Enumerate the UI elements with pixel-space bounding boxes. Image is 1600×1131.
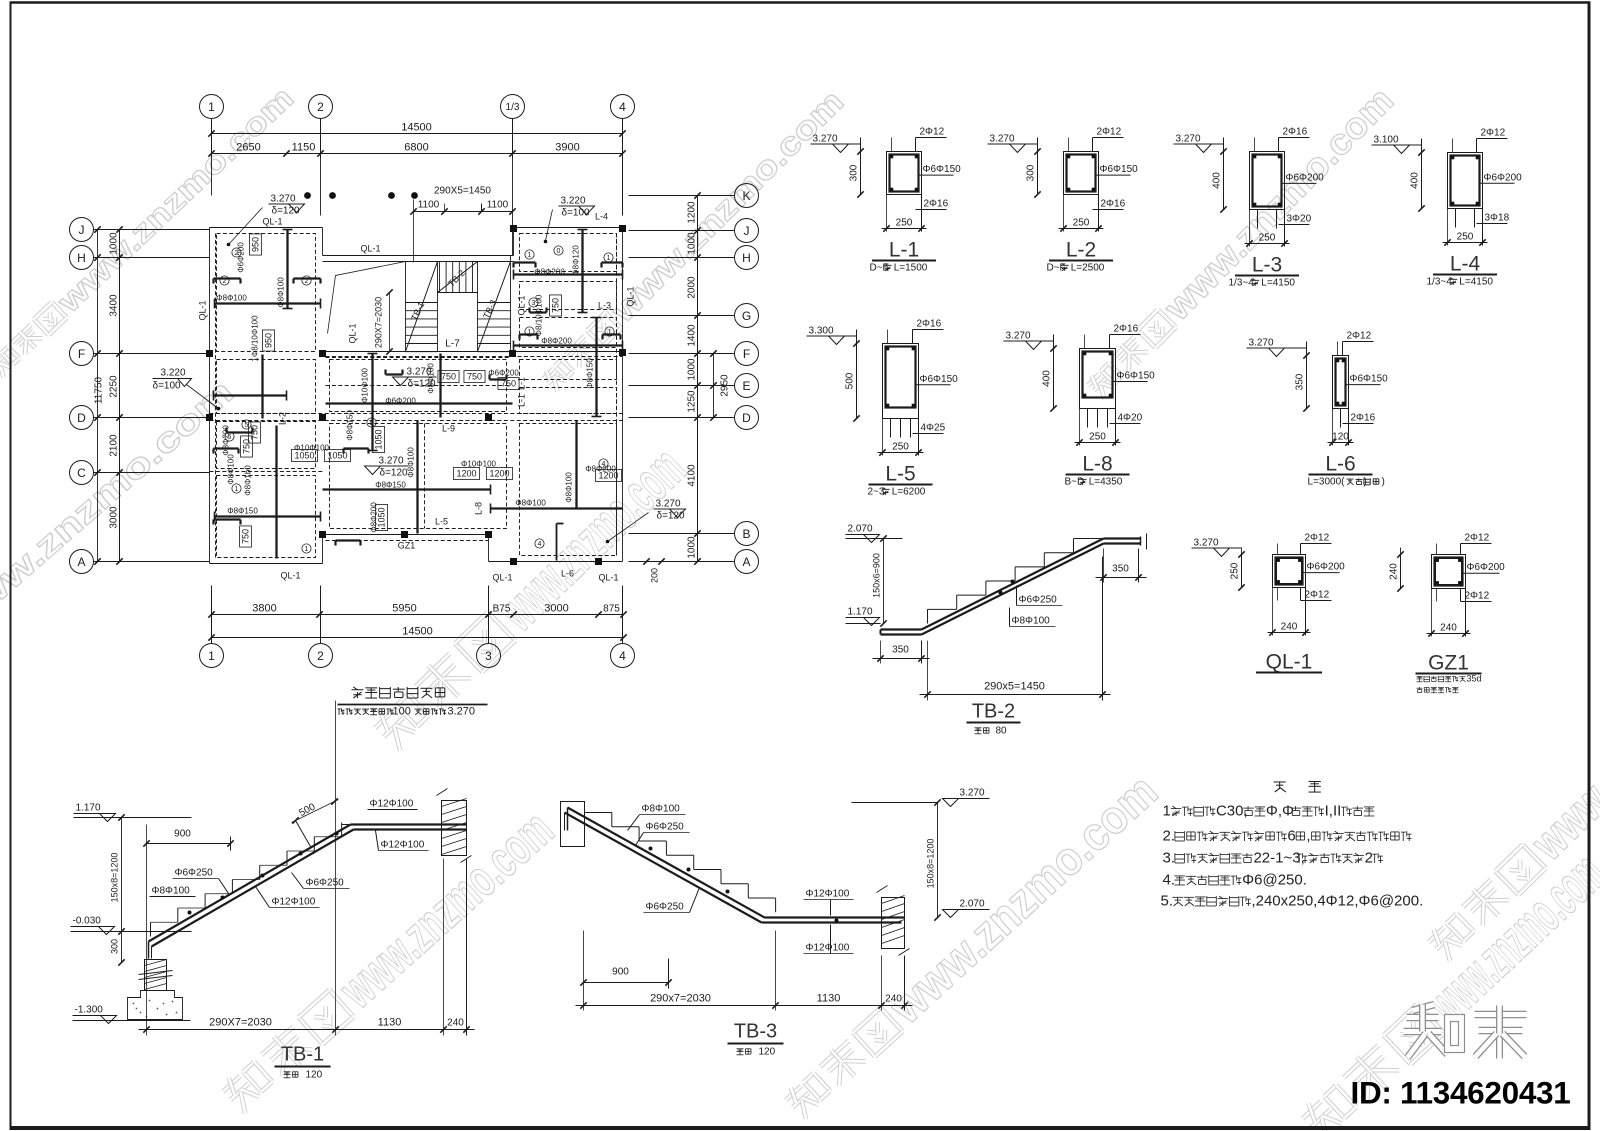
svg-text:Φ6Φ250: Φ6Φ250: [175, 868, 214, 879]
svg-text:1: 1: [208, 649, 215, 663]
svg-text:250: 250: [1089, 432, 1106, 443]
svg-text:GZ1: GZ1: [1428, 652, 1469, 675]
svg-text:L=4150: L=4150: [1459, 277, 1493, 288]
svg-text:300: 300: [110, 939, 120, 954]
svg-text:250: 250: [892, 442, 909, 453]
svg-text:1050: 1050: [374, 429, 384, 449]
svg-text:250: 250: [1073, 218, 1090, 229]
svg-text:2950: 2950: [720, 374, 731, 397]
svg-text:D: D: [742, 411, 751, 425]
svg-text:2Φ12: 2Φ12: [1097, 127, 1122, 138]
svg-text:Φ8Φ100: Φ8Φ100: [1012, 616, 1051, 627]
svg-text:4: 4: [538, 541, 542, 548]
svg-text:I,II: I,II: [1325, 803, 1342, 820]
svg-text:δ=100: δ=100: [153, 381, 182, 392]
svg-text:2Φ16: 2Φ16: [1351, 413, 1376, 424]
svg-text:5: 5: [370, 420, 374, 427]
svg-text:D: D: [77, 411, 86, 425]
svg-text:4Φ20: 4Φ20: [1118, 413, 1143, 424]
svg-text:1/3~4: 1/3~4: [1427, 277, 1453, 288]
svg-text:1150: 1150: [292, 142, 316, 154]
svg-text:3.270: 3.270: [656, 499, 681, 510]
svg-text:120: 120: [1332, 432, 1349, 443]
svg-text:290x5=1450: 290x5=1450: [984, 681, 1045, 693]
svg-text:L-3: L-3: [598, 301, 611, 311]
svg-text:1000: 1000: [109, 232, 120, 255]
svg-text:80: 80: [996, 726, 1008, 737]
svg-text:4100: 4100: [687, 464, 698, 487]
svg-text:L=2500: L=2500: [1071, 263, 1105, 274]
svg-text:3: 3: [485, 649, 492, 663]
svg-text:3.300: 3.300: [809, 326, 834, 337]
svg-text:3.220: 3.220: [161, 368, 186, 379]
svg-text:250: 250: [1259, 233, 1276, 244]
svg-text:1.: 1.: [1163, 803, 1176, 820]
svg-text:Φ8Φ100: Φ8Φ100: [515, 499, 546, 508]
svg-text:1: 1: [608, 329, 612, 336]
svg-text:2100: 2100: [109, 434, 120, 457]
svg-text:Φ8Φ150: Φ8Φ150: [227, 507, 258, 516]
svg-text:350: 350: [892, 645, 909, 656]
svg-text:3.: 3.: [1163, 850, 1176, 867]
svg-text:Φ8Φ100: Φ8Φ100: [277, 277, 286, 308]
svg-text:2Φ12: 2Φ12: [1465, 591, 1490, 602]
svg-text:3.270: 3.270: [990, 134, 1015, 145]
svg-text:11750: 11750: [94, 377, 105, 405]
svg-text:2Φ16: 2Φ16: [1101, 199, 1126, 210]
svg-text:Φ8Φ150: Φ8Φ150: [586, 358, 595, 389]
svg-text:290X7=2030: 290X7=2030: [374, 297, 384, 348]
svg-text:3000: 3000: [109, 506, 120, 529]
svg-text:0: 0: [557, 248, 561, 255]
svg-text:QL-1: QL-1: [262, 217, 282, 227]
svg-text:2Φ16: 2Φ16: [924, 199, 949, 210]
svg-text:δ=120: δ=120: [657, 511, 686, 522]
svg-text:H: H: [77, 251, 86, 265]
svg-text:250: 250: [1457, 232, 1474, 243]
svg-text:1Φ8/10Φ100: 1Φ8/10Φ100: [251, 315, 260, 362]
svg-text:22-1~3,: 22-1~3,: [1253, 850, 1304, 867]
svg-text:E: E: [742, 379, 750, 393]
svg-text:Φ8Φ100: Φ8Φ100: [642, 804, 681, 815]
svg-text:1200: 1200: [489, 469, 509, 479]
svg-text:300: 300: [849, 164, 860, 181]
svg-text:100: 100: [393, 706, 411, 718]
svg-text:350: 350: [1295, 373, 1306, 390]
svg-text:1130: 1130: [817, 993, 841, 1005]
svg-text:Φ8Φ200: Φ8Φ200: [541, 337, 572, 346]
svg-text:1130: 1130: [378, 1017, 402, 1029]
svg-text:3.270: 3.270: [1249, 338, 1274, 349]
svg-text:240: 240: [885, 994, 902, 1005]
svg-text:A: A: [77, 555, 85, 569]
svg-text:Φ8Φ100: Φ8Φ100: [407, 447, 416, 478]
svg-text:Φ6Φ200: Φ6Φ200: [1467, 562, 1506, 573]
svg-text:3.270: 3.270: [407, 367, 432, 378]
svg-text:950: 950: [251, 237, 261, 252]
svg-text:3.270: 3.270: [813, 134, 838, 145]
svg-text:Φ6Φ250: Φ6Φ250: [646, 822, 685, 833]
svg-text:150x8=1200: 150x8=1200: [926, 839, 936, 889]
svg-text:1400: 1400: [687, 324, 698, 347]
svg-text:240: 240: [1389, 563, 1400, 580]
svg-text:750: 750: [467, 372, 482, 382]
svg-text:1200: 1200: [687, 201, 698, 224]
svg-text:QL-1: QL-1: [492, 573, 512, 583]
svg-text:,: ,: [1306, 828, 1310, 845]
svg-text:TB-3: TB-3: [734, 1021, 777, 1043]
svg-text:400: 400: [1042, 370, 1053, 387]
svg-text:Φ8Φ100: Φ8Φ100: [227, 454, 236, 485]
svg-text:4.: 4.: [1163, 872, 1176, 889]
svg-text:2Φ12: 2Φ12: [920, 127, 945, 138]
svg-text:120: 120: [306, 1070, 323, 1081]
svg-text:400: 400: [1410, 172, 1421, 189]
svg-text:240: 240: [447, 1018, 464, 1029]
svg-text:1/3: 1/3: [506, 102, 520, 113]
svg-text:Φ8Φ100: Φ8Φ100: [216, 294, 247, 303]
svg-text:1: 1: [607, 255, 611, 262]
svg-text:Φ12Φ100: Φ12Φ100: [272, 897, 316, 908]
svg-text:2000: 2000: [687, 276, 698, 299]
svg-text:F: F: [78, 347, 85, 361]
svg-text:Φ8Φ200: Φ8Φ200: [534, 268, 565, 277]
svg-text:Φ6Φ200: Φ6Φ200: [1286, 172, 1325, 183]
svg-text:1: 1: [528, 329, 532, 336]
svg-text:6800: 6800: [404, 142, 428, 154]
svg-text:3.270: 3.270: [1194, 538, 1219, 549]
svg-text:Φ6Φ250: Φ6Φ250: [646, 902, 685, 913]
svg-text:2250: 2250: [109, 375, 120, 398]
svg-text:Φ6Φ200: Φ6Φ200: [488, 369, 519, 378]
svg-text:150x6=900: 150x6=900: [872, 553, 882, 598]
svg-text:1050: 1050: [327, 451, 347, 461]
svg-text:G: G: [742, 309, 751, 323]
svg-text:750: 750: [441, 372, 456, 382]
svg-text:2Φ16: 2Φ16: [1283, 127, 1308, 138]
svg-text:3.270: 3.270: [448, 706, 476, 718]
svg-text:200: 200: [650, 568, 660, 583]
svg-text:L-5: L-5: [885, 463, 915, 486]
svg-text:δ=120: δ=120: [380, 468, 409, 479]
svg-text:L-8: L-8: [474, 502, 484, 515]
svg-text:3Φ18: 3Φ18: [1485, 213, 1510, 224]
svg-text:Φ8Φ150: Φ8Φ150: [375, 481, 406, 490]
svg-text:2Φ16: 2Φ16: [917, 319, 942, 330]
svg-text:240: 240: [1281, 622, 1298, 633]
svg-text:QL-1: QL-1: [626, 286, 636, 306]
svg-text:L=1500: L=1500: [894, 263, 928, 274]
svg-text:H: H: [742, 251, 751, 265]
svg-text:Φ6Φ150: Φ6Φ150: [1100, 164, 1139, 175]
svg-text:ID: 1134620431: ID: 1134620431: [1351, 1075, 1571, 1111]
svg-text:Φ12Φ100: Φ12Φ100: [806, 943, 850, 954]
svg-text:750: 750: [242, 439, 252, 454]
svg-text:1/3~4: 1/3~4: [1229, 278, 1255, 289]
svg-text:L-2: L-2: [278, 412, 288, 425]
svg-text:L-9: L-9: [442, 424, 455, 434]
svg-text:L-1: L-1: [517, 377, 527, 390]
svg-text:Φ8Φ100: Φ8Φ100: [565, 472, 574, 503]
svg-text:3: 3: [532, 300, 536, 307]
svg-text:Φ6Φ150: Φ6Φ150: [1117, 371, 1156, 382]
svg-text:1100: 1100: [487, 200, 509, 211]
svg-text:2: 2: [317, 100, 324, 114]
svg-text:5: 5: [245, 422, 249, 429]
svg-text:QL-1: QL-1: [598, 573, 618, 583]
svg-text:950: 950: [264, 333, 274, 348]
svg-text:1: 1: [528, 252, 532, 259]
svg-text:750: 750: [501, 379, 516, 389]
svg-text:2650: 2650: [236, 142, 260, 154]
svg-text:2Φ12: 2Φ12: [1347, 331, 1372, 342]
svg-text:14500: 14500: [401, 122, 432, 134]
svg-text:1250: 1250: [687, 390, 698, 413]
svg-text:3.220: 3.220: [561, 196, 586, 207]
svg-text:QL-1: QL-1: [1266, 651, 1313, 674]
svg-text:2~3: 2~3: [868, 487, 885, 498]
svg-text:500: 500: [845, 372, 856, 389]
svg-text:L-4: L-4: [595, 212, 608, 222]
svg-text:1000: 1000: [687, 536, 698, 559]
svg-text:3.270: 3.270: [379, 456, 404, 467]
svg-text:2: 2: [1365, 850, 1373, 867]
svg-text:2: 2: [317, 649, 324, 663]
svg-text:3900: 3900: [555, 142, 579, 154]
svg-text:4: 4: [619, 100, 626, 114]
svg-text:Φ8Φ120: Φ8Φ120: [572, 245, 581, 276]
svg-text:GZ1: GZ1: [398, 541, 416, 551]
svg-text:δ=120: δ=120: [408, 379, 437, 390]
svg-text:-0.030: -0.030: [73, 916, 102, 927]
svg-text:2: 2: [305, 278, 309, 285]
svg-text:750: 750: [551, 298, 561, 313]
svg-text:Φ8Φ1b0: Φ8Φ1b0: [244, 465, 253, 496]
svg-text:290X5=1450: 290X5=1450: [434, 186, 491, 197]
svg-text:2.070: 2.070: [848, 524, 873, 535]
svg-text:3.270: 3.270: [1176, 134, 1201, 145]
svg-text:900: 900: [612, 967, 629, 978]
svg-text:L=4350: L=4350: [1089, 477, 1123, 488]
svg-text:Φ6Φ250: Φ6Φ250: [306, 878, 345, 889]
svg-text:): ): [1382, 477, 1385, 488]
svg-text:L-2: L-2: [1066, 239, 1096, 262]
svg-text:L-8: L-8: [1082, 453, 1112, 476]
svg-text:2Φ12: 2Φ12: [1305, 533, 1330, 544]
svg-text:Φ6Φ150: Φ6Φ150: [923, 164, 962, 175]
svg-text:900: 900: [174, 829, 191, 840]
svg-text:L-1: L-1: [517, 394, 527, 407]
svg-text:1: 1: [235, 486, 239, 493]
svg-text:B75: B75: [493, 604, 511, 615]
svg-text:A: A: [742, 555, 750, 569]
svg-text:14500: 14500: [402, 626, 433, 638]
svg-text:L-1: L-1: [889, 239, 919, 262]
svg-text:3.270: 3.270: [1006, 331, 1031, 342]
svg-text:2Φ12: 2Φ12: [1481, 128, 1506, 139]
svg-text:1000: 1000: [687, 232, 698, 255]
svg-text:4: 4: [619, 649, 626, 663]
svg-text:Φ10Φ100: Φ10Φ100: [361, 367, 370, 403]
svg-text:1050: 1050: [377, 507, 387, 527]
svg-text:1100: 1100: [418, 200, 440, 211]
svg-text:F: F: [743, 347, 750, 361]
svg-text:1.170: 1.170: [76, 803, 101, 814]
svg-text:δ=120: δ=120: [272, 206, 301, 217]
svg-text:2Φ16: 2Φ16: [1114, 324, 1139, 335]
svg-text:Φ6Φ150: Φ6Φ150: [920, 374, 959, 385]
svg-text:3400: 3400: [109, 294, 120, 317]
svg-text:3Φ20: 3Φ20: [1287, 214, 1312, 225]
svg-text:750: 750: [241, 529, 251, 544]
svg-text:Φ6Φ200: Φ6Φ200: [1484, 172, 1523, 183]
svg-text:Φ8Φ100: Φ8Φ100: [152, 886, 191, 897]
svg-text:1: 1: [208, 100, 215, 114]
svg-text:Φ,Φ: Φ,Φ: [1266, 803, 1294, 820]
svg-text:1200: 1200: [598, 471, 618, 481]
svg-text:300: 300: [1026, 164, 1037, 181]
svg-text:TB-1: TB-1: [281, 1044, 324, 1066]
svg-text:6: 6: [1287, 828, 1295, 845]
svg-text:L-4: L-4: [1450, 253, 1481, 276]
svg-text:750: 750: [250, 425, 260, 440]
svg-text:1: 1: [305, 546, 309, 553]
svg-text:L=6200: L=6200: [892, 487, 926, 498]
svg-text:875: 875: [603, 604, 620, 615]
svg-text:J: J: [744, 224, 750, 238]
svg-text:2Φ12: 2Φ12: [1305, 590, 1330, 601]
svg-text:L=4150: L=4150: [1261, 278, 1295, 289]
svg-text:250: 250: [896, 218, 913, 229]
svg-text:-1.300: -1.300: [75, 1005, 104, 1016]
svg-text:290x7=2030: 290x7=2030: [650, 993, 711, 1005]
svg-text:250: 250: [1230, 562, 1241, 579]
svg-text:J: J: [79, 223, 85, 237]
svg-text:TB-2: TB-2: [972, 701, 1015, 723]
svg-text:L-5: L-5: [435, 517, 448, 527]
svg-text:5.: 5.: [1161, 893, 1174, 910]
svg-text:3.100: 3.100: [1374, 135, 1399, 146]
svg-text:1050: 1050: [294, 451, 314, 461]
svg-text:Φ6@250.: Φ6@250.: [1242, 872, 1307, 889]
svg-text:Φ6Φ200: Φ6Φ200: [385, 397, 416, 406]
svg-text:C: C: [77, 466, 86, 480]
svg-text:QL-1: QL-1: [348, 323, 358, 343]
svg-text:L-3: L-3: [1252, 254, 1282, 277]
svg-text:3.270: 3.270: [271, 194, 296, 205]
svg-text:4: 4: [602, 461, 606, 468]
svg-text:QL-1: QL-1: [360, 244, 380, 254]
svg-text:5: 5: [228, 434, 232, 441]
svg-text:1.170: 1.170: [848, 607, 873, 618]
svg-text:Φ8/10Φ100: Φ8/10Φ100: [535, 294, 544, 336]
svg-text:Φ12Φ100: Φ12Φ100: [381, 840, 425, 851]
svg-text:Φ8Φ150: Φ8Φ150: [346, 410, 355, 441]
svg-text:2Φ12: 2Φ12: [1465, 533, 1490, 544]
svg-text:2.: 2.: [1163, 828, 1176, 845]
svg-text:35d: 35d: [1467, 674, 1482, 684]
svg-text:QL-1: QL-1: [280, 571, 300, 581]
svg-text:5950: 5950: [392, 603, 416, 615]
svg-text:400: 400: [1212, 172, 1223, 189]
svg-text:Φ6Φ250: Φ6Φ250: [1019, 595, 1058, 606]
svg-text:B: B: [742, 527, 750, 541]
svg-text:2.070: 2.070: [960, 899, 985, 910]
svg-text:4Φ25: 4Φ25: [921, 423, 946, 434]
svg-text:290X7=2030: 290X7=2030: [209, 1017, 272, 1029]
svg-text:3800: 3800: [252, 603, 276, 615]
svg-text:Φ6Φ200: Φ6Φ200: [1307, 562, 1346, 573]
svg-text:2: 2: [223, 278, 227, 285]
svg-text:QL-1: QL-1: [517, 295, 527, 315]
svg-text:350: 350: [1112, 564, 1129, 575]
svg-text:δ=100: δ=100: [562, 208, 591, 219]
svg-text:C30,: C30,: [1216, 803, 1248, 820]
svg-text:150x8=1200: 150x8=1200: [110, 853, 120, 903]
svg-text:3.270: 3.270: [960, 788, 985, 799]
svg-text:,240x250,4Φ12,Φ6@200.: ,240x250,4Φ12,Φ6@200.: [1251, 893, 1423, 910]
svg-text:1000: 1000: [687, 358, 698, 381]
svg-text:K: K: [742, 189, 750, 203]
svg-text:Φ6Φ150: Φ6Φ150: [1350, 374, 1389, 385]
svg-text:120: 120: [759, 1047, 776, 1058]
svg-text:Φ12Φ100: Φ12Φ100: [370, 799, 414, 810]
svg-text:L-6: L-6: [561, 569, 574, 579]
svg-text:QL-1: QL-1: [198, 300, 208, 320]
svg-text:240: 240: [1440, 623, 1457, 634]
svg-text:3000: 3000: [544, 603, 568, 615]
svg-text:2: 2: [235, 250, 239, 257]
svg-text:Φ12Φ100: Φ12Φ100: [806, 889, 850, 900]
svg-text:L-7: L-7: [445, 339, 460, 350]
svg-text:1200: 1200: [456, 469, 476, 479]
svg-text:L=3000(: L=3000(: [1308, 477, 1346, 488]
svg-text:L-6: L-6: [1325, 453, 1355, 476]
